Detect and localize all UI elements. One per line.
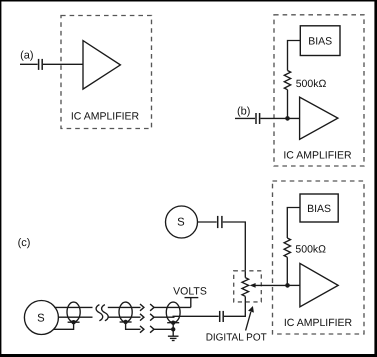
svg-text:IC AMPLIFIER: IC AMPLIFIER [283, 149, 352, 161]
shield tap dot 1 [71, 320, 75, 324]
shield junction dot [171, 327, 175, 331]
op-amp triangle (c) [300, 263, 338, 307]
shield tap tick 1 [68, 321, 80, 323]
shield tap tick 3 [167, 322, 179, 324]
wire: capacitor to digital pot top (c) [223, 222, 246, 278]
capacitor C (c bottom) [220, 311, 224, 322]
ground [168, 336, 179, 340]
cable ring 3 [166, 302, 180, 323]
dashed box DIGITAL POT [234, 271, 262, 302]
VOLTS probe [185, 298, 199, 308]
signal source S (c bottom) [24, 301, 58, 335]
svg-text:(c): (c) [18, 237, 31, 249]
wire: source shield conductor [54, 322, 74, 329]
wire: shield ring2 to connector [126, 322, 141, 329]
op-amp triangle (a) [83, 41, 120, 90]
svg-text:(b): (b) [237, 106, 250, 118]
wire: resistor to node (c) [286, 257, 288, 285]
callout arrow to DIGITAL POT box [246, 306, 254, 331]
wire: source S to capacitor (c top) [198, 221, 217, 223]
dashed box IC AMPLIFIER (b) [274, 15, 364, 166]
wire: ring 3 to capacitor (mid) [173, 315, 219, 317]
wire: break to ring 2 (mid) [108, 316, 141, 318]
shield tap tick 2 [120, 321, 132, 323]
BIAS box (b) [300, 26, 340, 56]
cable ring 1 [67, 302, 80, 322]
svg-text:S: S [37, 313, 45, 325]
wire: node to op-amp (c) [288, 284, 300, 286]
wire: capacitor to op-amp (b) [260, 117, 299, 119]
capacitor C (b) [256, 113, 260, 124]
potentiometer wiper arrow [250, 283, 288, 288]
BIAS box (c) [300, 194, 338, 222]
svg-text:500kΩ: 500kΩ [296, 78, 327, 90]
dashed box IC AMPLIFIER (a) [61, 16, 152, 129]
wire: pot bottom to capacitor (c bottom) [224, 296, 245, 316]
wire: source top conductor [54, 306, 92, 308]
connector chevrons top pair [140, 304, 154, 311]
wire: BIAS to resistor (b) [288, 41, 301, 71]
shield tap dot 3 [171, 321, 175, 325]
svg-text:S: S [177, 217, 185, 229]
node junction dot (c amp input) [285, 283, 290, 288]
wire: source mid conductor [58, 316, 92, 318]
resistor R 500k (b) [284, 71, 290, 90]
svg-text:500kΩ: 500kΩ [295, 244, 326, 256]
potentiometer resistor body [242, 278, 249, 297]
wire: BIAS to resistor (c) [287, 208, 300, 239]
wire: resistor to node (b) [287, 90, 289, 119]
capacitor C (a) [39, 59, 43, 70]
wire: input to capacitor (a) [20, 63, 38, 65]
wire: break to ring 2 (top) [108, 306, 141, 308]
signal source S (c top) [166, 206, 198, 238]
cable break squiggle [96, 305, 108, 321]
wire: capacitor to op-amp (a) [43, 63, 83, 65]
svg-text:VOLTS: VOLTS [173, 286, 207, 298]
connector chevrons mid pair [140, 314, 154, 321]
wire: ring 3 shield to ground [172, 323, 174, 336]
capacitor C (c top) [218, 216, 222, 228]
wire: connector to ring 3 (top) [154, 306, 191, 308]
dashed box IC AMPLIFIER (c) [273, 181, 365, 334]
svg-text:(a): (a) [20, 50, 33, 62]
wire: connector to capacitor (mid) [154, 316, 175, 318]
wire: connector to ground node (shield) [154, 328, 173, 330]
wire: input to capacitor (b) [235, 117, 255, 119]
resistor R 500k (c) [284, 238, 290, 257]
svg-text:IC AMPLIFIER: IC AMPLIFIER [71, 110, 140, 122]
cable ring 2 [119, 302, 132, 322]
svg-text:IC AMPLIFIER: IC AMPLIFIER [284, 317, 353, 329]
shield tap dot 2 [123, 320, 127, 324]
svg-text:BIAS: BIAS [308, 35, 332, 47]
svg-text:DIGITAL POT: DIGITAL POT [206, 332, 268, 343]
node junction dot (b) [285, 116, 290, 121]
connector chevrons shield pair [140, 326, 154, 333]
op-amp triangle (b) [300, 97, 338, 139]
svg-text:BIAS: BIAS [307, 203, 331, 215]
